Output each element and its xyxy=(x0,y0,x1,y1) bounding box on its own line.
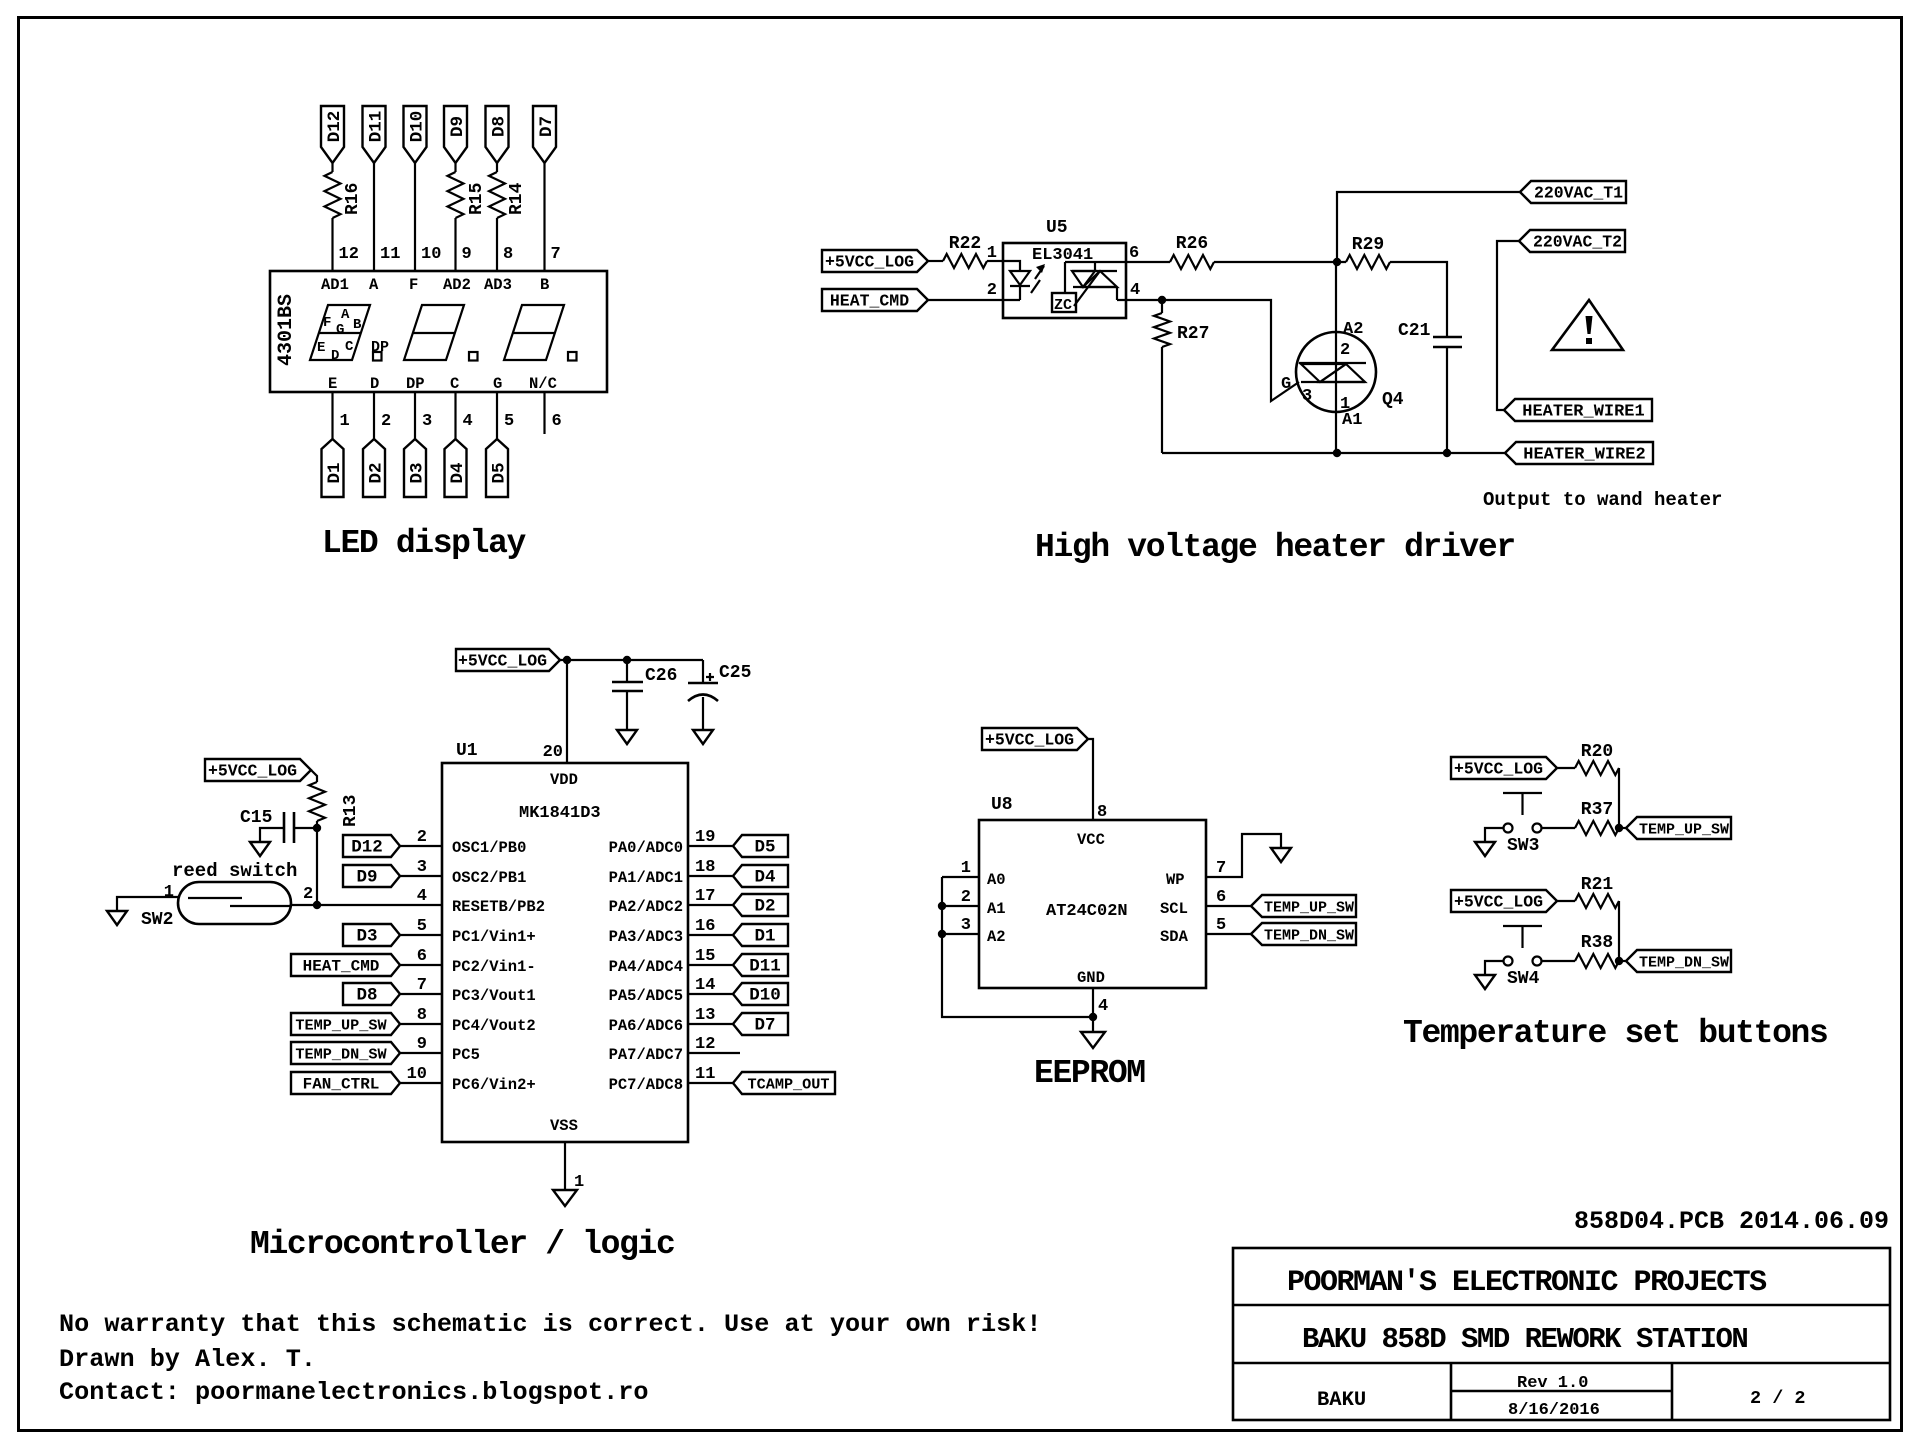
resistor R37 xyxy=(1542,827,1576,829)
svg-text:+5VCC_LOG: +5VCC_LOG xyxy=(985,731,1074,750)
svg-text:6: 6 xyxy=(552,412,562,431)
svg-text:2: 2 xyxy=(987,281,997,300)
net flag D8 xyxy=(486,106,509,163)
svg-text:VDD: VDD xyxy=(550,771,578,789)
svg-text:A1: A1 xyxy=(987,900,1006,918)
svg-text:+5VCC_LOG: +5VCC_LOG xyxy=(1454,760,1543,779)
svg-text:D1: D1 xyxy=(325,462,345,483)
wire U5 pin6 to R26 xyxy=(1126,261,1170,263)
svg-text:R21: R21 xyxy=(1581,875,1614,895)
wire VDD pin 20 xyxy=(566,660,568,763)
svg-text:D1: D1 xyxy=(754,927,775,947)
svg-text:3: 3 xyxy=(422,412,432,431)
svg-text:PC2/Vin1-: PC2/Vin1- xyxy=(452,958,536,976)
wire flag to R13 xyxy=(311,770,317,782)
net flag +5VCC_LOG (R21) xyxy=(1451,890,1557,912)
svg-text:15: 15 xyxy=(695,947,715,966)
title block box xyxy=(1233,1248,1890,1420)
svg-text:7: 7 xyxy=(551,245,561,264)
wire pin 3 xyxy=(414,392,416,439)
wire R21 to junction xyxy=(1618,901,1620,961)
svg-text:TEMP_UP_SW: TEMP_UP_SW xyxy=(295,1017,387,1035)
net flag +5VCC_LOG (R20) xyxy=(1451,757,1557,779)
svg-text:D7: D7 xyxy=(537,116,557,137)
svg-text:2: 2 xyxy=(417,828,427,847)
capacitor C21 xyxy=(1433,337,1462,347)
svg-text:PA2/ADC2: PA2/ADC2 xyxy=(609,898,683,916)
svg-text:10: 10 xyxy=(421,245,441,264)
capacitor C25 (polarized) xyxy=(702,660,704,730)
svg-text:D9: D9 xyxy=(448,116,468,137)
svg-text:+5VCC_LOG: +5VCC_LOG xyxy=(825,253,914,272)
svg-text:R14: R14 xyxy=(507,182,527,215)
svg-text:858D04.PCB 2014.06.09: 858D04.PCB 2014.06.09 xyxy=(1574,1207,1889,1236)
svg-text:6: 6 xyxy=(1216,888,1226,907)
svg-text:D5: D5 xyxy=(754,838,775,858)
resistor R27 xyxy=(1154,313,1170,347)
svg-text:1: 1 xyxy=(961,859,971,878)
svg-text:A0: A0 xyxy=(987,871,1006,889)
net flag HEATER_WIRE1 xyxy=(1504,399,1652,421)
svg-text:PC1/Vin1+: PC1/Vin1+ xyxy=(452,928,536,946)
net flag TEMP_UP_SW (SCL) xyxy=(1251,895,1356,917)
svg-text:2: 2 xyxy=(1340,341,1350,360)
svg-text:D11: D11 xyxy=(749,957,781,977)
svg-text:Contact: poormanelectronics.bl: Contact: poormanelectronics.blogspot.ro xyxy=(59,1378,648,1407)
svg-text:Rev 1.0: Rev 1.0 xyxy=(1517,1374,1588,1393)
svg-text:TCAMP_OUT: TCAMP_OUT xyxy=(747,1076,829,1094)
svg-text:C26: C26 xyxy=(645,666,677,686)
svg-text:Drawn by Alex. T.: Drawn by Alex. T. xyxy=(59,1345,316,1374)
svg-text:D8: D8 xyxy=(490,116,510,137)
svg-text:G: G xyxy=(336,322,344,338)
svg-text:AD2: AD2 xyxy=(443,276,471,294)
svg-text:5: 5 xyxy=(417,917,427,936)
svg-text:9: 9 xyxy=(462,245,472,264)
bottom rail wire xyxy=(1162,452,1505,454)
svg-text:D2: D2 xyxy=(367,462,387,483)
svg-text:D4: D4 xyxy=(754,868,775,888)
resistor R21 xyxy=(1575,894,1619,908)
net flag 220VAC_T1 xyxy=(1520,181,1626,203)
svg-text:U8: U8 xyxy=(991,795,1013,815)
wire reset to U1 xyxy=(291,904,442,906)
svg-text:D11: D11 xyxy=(367,111,387,143)
wire R22 to U5 pin 1 xyxy=(987,260,1003,262)
net flag D9 xyxy=(343,865,400,887)
7-segment digit 1 xyxy=(310,305,370,360)
net flag D2 xyxy=(733,894,788,916)
wire reed pin1 to ground xyxy=(117,897,178,911)
svg-text:R37: R37 xyxy=(1581,800,1613,820)
net flag D3 xyxy=(343,924,400,946)
svg-text:PA3/ADC3: PA3/ADC3 xyxy=(609,928,683,946)
svg-text:U1: U1 xyxy=(456,741,478,761)
svg-text:A: A xyxy=(341,307,350,323)
net flag D12 xyxy=(343,835,400,857)
svg-text:OSC2/PB1: OSC2/PB1 xyxy=(452,869,526,887)
svg-text:+5VCC_LOG: +5VCC_LOG xyxy=(458,652,547,671)
svg-text:13: 13 xyxy=(695,1006,715,1025)
svg-text:OSC1/PB0: OSC1/PB0 xyxy=(452,839,526,857)
svg-text:PA5/ADC5: PA5/ADC5 xyxy=(609,987,683,1005)
net flag HEAT_CMD xyxy=(822,289,928,311)
svg-text:C15: C15 xyxy=(240,808,272,828)
svg-text:D4: D4 xyxy=(448,462,468,483)
svg-text:2: 2 xyxy=(303,885,313,904)
wire HEAT_CMD to U5 pin 2 xyxy=(928,299,1003,301)
svg-text:HEAT_CMD: HEAT_CMD xyxy=(303,958,380,976)
svg-text:DP: DP xyxy=(406,375,425,393)
svg-text:D2: D2 xyxy=(754,897,775,917)
svg-text:D: D xyxy=(331,348,339,364)
svg-text:R22: R22 xyxy=(949,234,981,254)
ground VSS xyxy=(553,1190,577,1206)
wire to R20 xyxy=(1557,767,1575,769)
svg-text:4: 4 xyxy=(463,412,473,431)
svg-text:D12: D12 xyxy=(351,838,383,858)
svg-text:D3: D3 xyxy=(408,462,428,483)
svg-text:TEMP_UP_SW: TEMP_UP_SW xyxy=(1639,822,1729,839)
svg-text:G: G xyxy=(1281,375,1291,394)
svg-text:BAKU: BAKU xyxy=(1317,1389,1366,1412)
svg-text:4: 4 xyxy=(417,887,427,906)
net flag 220VAC_T2 xyxy=(1519,230,1625,252)
svg-text:1: 1 xyxy=(340,412,350,431)
A0-A2 bus wire xyxy=(942,877,1093,1017)
svg-text:AD3: AD3 xyxy=(484,276,512,294)
switch SW4 xyxy=(1503,926,1542,948)
U5 light arrow xyxy=(1031,266,1044,293)
resistor R26 xyxy=(1170,255,1214,269)
resistor R16 xyxy=(325,172,341,218)
svg-text:PC4/Vout2: PC4/Vout2 xyxy=(452,1017,536,1035)
7-segment digit 3 xyxy=(504,305,564,360)
svg-text:D12: D12 xyxy=(325,111,345,143)
svg-text:C: C xyxy=(450,375,459,393)
U5 internal LED xyxy=(1003,261,1020,300)
svg-text:E: E xyxy=(328,375,337,393)
net flag TEMP_UP_SW xyxy=(1626,817,1731,839)
svg-text:4301BS: 4301BS xyxy=(275,294,298,366)
junction R27 xyxy=(1158,296,1166,304)
switch SW3 xyxy=(1503,793,1542,815)
resistor R20 xyxy=(1575,761,1619,775)
svg-text:TEMP_DN_SW: TEMP_DN_SW xyxy=(295,1046,387,1064)
svg-text:HEAT_CMD: HEAT_CMD xyxy=(830,292,909,311)
svg-text:D5: D5 xyxy=(490,462,510,483)
wire VCC pin 8 xyxy=(1088,739,1093,820)
svg-text:3: 3 xyxy=(417,858,427,877)
net flag TCAMP_OUT xyxy=(733,1072,835,1094)
net flag +5VCC_LOG (heater) xyxy=(822,250,928,272)
svg-text:8: 8 xyxy=(417,1006,427,1025)
svg-text:17: 17 xyxy=(695,887,715,906)
net flag FAN_CTRL xyxy=(291,1072,400,1094)
warning triangle xyxy=(1552,300,1623,350)
wire R26 to junction xyxy=(1214,261,1346,263)
net flag HEAT_CMD xyxy=(291,954,400,976)
svg-text:R13: R13 xyxy=(341,795,361,827)
svg-text:18: 18 xyxy=(695,858,715,877)
svg-text:SDA: SDA xyxy=(1160,928,1189,946)
svg-text:2: 2 xyxy=(961,888,971,907)
svg-text:PC6/Vin2+: PC6/Vin2+ xyxy=(452,1076,536,1094)
svg-text:220VAC_T2: 220VAC_T2 xyxy=(1533,233,1622,252)
wire D12 to R16 xyxy=(331,163,333,172)
svg-text:ZC: ZC xyxy=(1054,297,1072,314)
svg-text:TEMP_DN_SW: TEMP_DN_SW xyxy=(1264,928,1354,945)
net flag D8 xyxy=(343,983,400,1005)
wire D11 pin 11 xyxy=(373,163,375,271)
net flag D4 xyxy=(733,865,788,887)
svg-text:WP: WP xyxy=(1166,871,1185,889)
net flag TEMP_UP_SW xyxy=(291,1013,400,1035)
svg-text:D10: D10 xyxy=(749,986,781,1006)
U5 ZC box xyxy=(1052,293,1076,312)
wire pin 4 xyxy=(454,392,456,439)
svg-text:BAKU 858D SMD REWORK STATION: BAKU 858D SMD REWORK STATION xyxy=(1302,1323,1747,1356)
svg-text:SW3: SW3 xyxy=(1507,836,1539,856)
svg-text:A2: A2 xyxy=(987,928,1006,946)
net flag TEMP_DN_SW xyxy=(1626,950,1731,972)
svg-text:A1: A1 xyxy=(1342,411,1362,430)
svg-text:7: 7 xyxy=(417,976,427,995)
wire R15 to pin 9 xyxy=(454,218,456,271)
net flag D7 xyxy=(733,1013,788,1035)
svg-text:TEMP_DN_SW: TEMP_DN_SW xyxy=(1639,955,1729,972)
svg-text:1: 1 xyxy=(164,883,174,902)
resistor R13 xyxy=(309,782,325,821)
svg-text:C25: C25 xyxy=(719,663,751,683)
svg-text:4: 4 xyxy=(1098,997,1108,1016)
svg-text:7: 7 xyxy=(1216,859,1226,878)
wire VSS pin 1 xyxy=(564,1142,566,1190)
wire +5VCC rail xyxy=(560,659,703,661)
net flag D11 xyxy=(733,954,788,976)
optocoupler U5 box xyxy=(1003,243,1126,318)
svg-text:12: 12 xyxy=(339,245,359,264)
svg-text:Output to wand heater: Output to wand heater xyxy=(1483,489,1722,511)
net flag HEATER_WIRE2 xyxy=(1505,442,1653,464)
wire up to 220VAC_T1 xyxy=(1337,192,1520,262)
wire D8 to R14 xyxy=(496,163,498,172)
svg-text:HEATER_WIRE1: HEATER_WIRE1 xyxy=(1522,403,1644,422)
svg-text:B: B xyxy=(540,276,549,294)
svg-text:F: F xyxy=(323,315,331,331)
svg-text:5: 5 xyxy=(504,412,514,431)
resistor R22 xyxy=(943,254,987,268)
svg-text:R29: R29 xyxy=(1352,235,1384,255)
svg-text:3: 3 xyxy=(1302,387,1312,406)
svg-text:A2: A2 xyxy=(1343,320,1363,339)
junction node xyxy=(1333,258,1341,266)
svg-text:12: 12 xyxy=(695,1035,715,1054)
svg-text:reed switch: reed switch xyxy=(172,860,297,882)
svg-text:D9: D9 xyxy=(356,868,377,888)
net flag +5VCC_LOG (U8) xyxy=(982,728,1088,750)
svg-text:MK1841D3: MK1841D3 xyxy=(519,804,601,823)
wire R14 to pin 8 xyxy=(496,218,498,271)
wire SW4 to ground xyxy=(1485,961,1504,975)
svg-text:PC7/ADC8: PC7/ADC8 xyxy=(609,1076,683,1094)
wire pin 1 xyxy=(331,392,333,439)
svg-text:PA6/ADC6: PA6/ADC6 xyxy=(609,1017,683,1035)
svg-text:Q4: Q4 xyxy=(1382,390,1404,410)
wire SW3 to ground xyxy=(1485,828,1504,842)
svg-text:11: 11 xyxy=(695,1065,715,1084)
svg-text:9: 9 xyxy=(417,1035,427,1054)
net flag D1 xyxy=(733,924,788,946)
svg-text:PA7/ADC7: PA7/ADC7 xyxy=(609,1046,683,1064)
svg-text:D8: D8 xyxy=(356,986,377,1006)
net flag +5VCC_LOG (R13) xyxy=(205,759,311,781)
wire pin 5 xyxy=(496,392,498,439)
svg-text:HEATER_WIRE2: HEATER_WIRE2 xyxy=(1523,446,1645,465)
ground C25 xyxy=(693,730,713,744)
svg-text:A: A xyxy=(369,276,379,294)
svg-text:B: B xyxy=(353,317,362,333)
svg-text:1: 1 xyxy=(987,244,997,263)
wire R27 down to rail xyxy=(1161,347,1163,453)
EEPROM U8 box xyxy=(979,820,1206,988)
net flag D12 xyxy=(321,106,344,163)
svg-text:2 / 2: 2 / 2 xyxy=(1750,1388,1806,1409)
svg-text:6: 6 xyxy=(1129,244,1139,263)
svg-text:8: 8 xyxy=(503,245,513,264)
wire D7 pin 7 xyxy=(543,163,545,271)
svg-text:16: 16 xyxy=(695,917,715,936)
svg-text:11: 11 xyxy=(380,245,400,264)
svg-text:PA4/ADC4: PA4/ADC4 xyxy=(609,958,683,976)
wire +5VCC_LOG to R22 xyxy=(928,260,943,262)
wire R13 to junction xyxy=(316,821,318,828)
svg-text:+5VCC_LOG: +5VCC_LOG xyxy=(1454,893,1543,912)
LED display 4301BS box xyxy=(270,271,607,392)
wire junction to reset xyxy=(316,828,318,905)
svg-text:G: G xyxy=(493,375,502,393)
svg-text:6: 6 xyxy=(417,947,427,966)
svg-text:D: D xyxy=(370,375,379,393)
reed switch SW2 xyxy=(178,882,291,924)
svg-text:R27: R27 xyxy=(1177,324,1209,344)
svg-text:C: C xyxy=(345,339,354,355)
svg-text:SW2: SW2 xyxy=(141,910,173,930)
svg-text:R16: R16 xyxy=(343,183,363,215)
wire pin 2 xyxy=(373,392,375,439)
svg-text:4: 4 xyxy=(1130,281,1140,300)
capacitor C26 xyxy=(626,660,628,730)
net flag +5VCC_LOG (U1 top) xyxy=(456,649,560,671)
svg-text:PA0/ADC0: PA0/ADC0 xyxy=(609,839,683,857)
svg-text:SCL: SCL xyxy=(1160,900,1188,918)
wire R29 to C21 xyxy=(1390,262,1447,337)
svg-text:D10: D10 xyxy=(408,111,428,143)
U5 internal triac xyxy=(1065,262,1126,293)
ground C15 xyxy=(250,842,270,856)
wire 220VAC_T2 to HEATER_WIRE1 xyxy=(1497,241,1519,410)
7-segment digit 2 xyxy=(404,305,464,360)
net flag D1 xyxy=(322,439,344,497)
wire pin 6 N/C stub xyxy=(543,392,545,434)
resistor R38 xyxy=(1542,960,1576,962)
wire U5 pin4 to gate xyxy=(1126,300,1299,401)
svg-text:U5: U5 xyxy=(1046,218,1068,238)
svg-text:D3: D3 xyxy=(356,927,377,947)
svg-text:E: E xyxy=(317,340,325,356)
svg-text:AD1: AD1 xyxy=(321,276,349,294)
svg-text:Temperature set buttons: Temperature set buttons xyxy=(1403,1015,1827,1052)
svg-text:TEMP_UP_SW: TEMP_UP_SW xyxy=(1264,900,1354,917)
svg-text:GND: GND xyxy=(1077,969,1105,987)
net flag TEMP_DN_SW xyxy=(291,1042,400,1064)
svg-text:5: 5 xyxy=(1216,916,1226,935)
svg-text:LED display: LED display xyxy=(322,525,527,562)
svg-text:PC5: PC5 xyxy=(452,1046,480,1064)
svg-text:AT24C02N: AT24C02N xyxy=(1046,902,1128,921)
svg-text:FAN_CTRL: FAN_CTRL xyxy=(303,1076,380,1094)
svg-text:3: 3 xyxy=(961,916,971,935)
svg-text:No warranty that this schemati: No warranty that this schematic is corre… xyxy=(59,1310,1041,1339)
svg-text:EEPROM: EEPROM xyxy=(1034,1055,1145,1092)
svg-text:POORMAN'S ELECTRONIC PROJECTS: POORMAN'S ELECTRONIC PROJECTS xyxy=(1287,1266,1767,1300)
wire to R27 xyxy=(1161,300,1163,313)
svg-text:VSS: VSS xyxy=(550,1117,578,1135)
svg-text:F: F xyxy=(409,276,418,294)
wire to R21 xyxy=(1557,900,1575,902)
svg-text:D7: D7 xyxy=(754,1016,775,1036)
net flag D2 xyxy=(363,439,385,497)
net flag D5 xyxy=(733,835,788,857)
wire D9 to R15 xyxy=(454,163,456,172)
svg-text:PA1/ADC1: PA1/ADC1 xyxy=(609,869,683,887)
wire D10 pin 10 xyxy=(414,163,416,271)
svg-text:N/C: N/C xyxy=(529,375,557,393)
svg-text:VCC: VCC xyxy=(1077,831,1105,849)
capacitor C15 xyxy=(260,828,317,842)
net flag D9 xyxy=(444,106,467,163)
net flag D10 xyxy=(404,106,427,163)
net flag D11 xyxy=(363,106,386,163)
svg-text:220VAC_T1: 220VAC_T1 xyxy=(1534,184,1623,203)
resistor R14 xyxy=(489,172,505,218)
wire R20 to junction xyxy=(1618,768,1620,828)
svg-text:R20: R20 xyxy=(1581,742,1613,762)
svg-text:R38: R38 xyxy=(1581,933,1613,953)
net flag D4 xyxy=(445,439,467,497)
svg-text:8/16/2016: 8/16/2016 xyxy=(1508,1401,1600,1420)
net flag D10 xyxy=(733,983,788,1005)
svg-text:RESETB/PB2: RESETB/PB2 xyxy=(452,898,545,916)
net flag D7 xyxy=(533,106,556,163)
resistor R15 xyxy=(448,172,464,218)
svg-text:20: 20 xyxy=(543,743,563,762)
wire R16 to pin 12 xyxy=(331,218,333,271)
svg-text:10: 10 xyxy=(407,1065,427,1084)
svg-text:19: 19 xyxy=(695,828,715,847)
net flag TEMP_DN_SW (SDA) xyxy=(1251,923,1356,945)
microcontroller U1 box xyxy=(442,763,688,1142)
svg-text:C21: C21 xyxy=(1398,321,1431,341)
svg-text:14: 14 xyxy=(695,976,715,995)
net flag D3 xyxy=(404,439,426,497)
triac Q4 xyxy=(1296,332,1376,412)
ground C26 xyxy=(617,730,637,744)
svg-text:SW4: SW4 xyxy=(1507,969,1540,989)
svg-text:R26: R26 xyxy=(1176,234,1208,254)
net flag D5 xyxy=(486,439,508,497)
svg-text:High voltage heater driver: High voltage heater driver xyxy=(1035,529,1515,566)
